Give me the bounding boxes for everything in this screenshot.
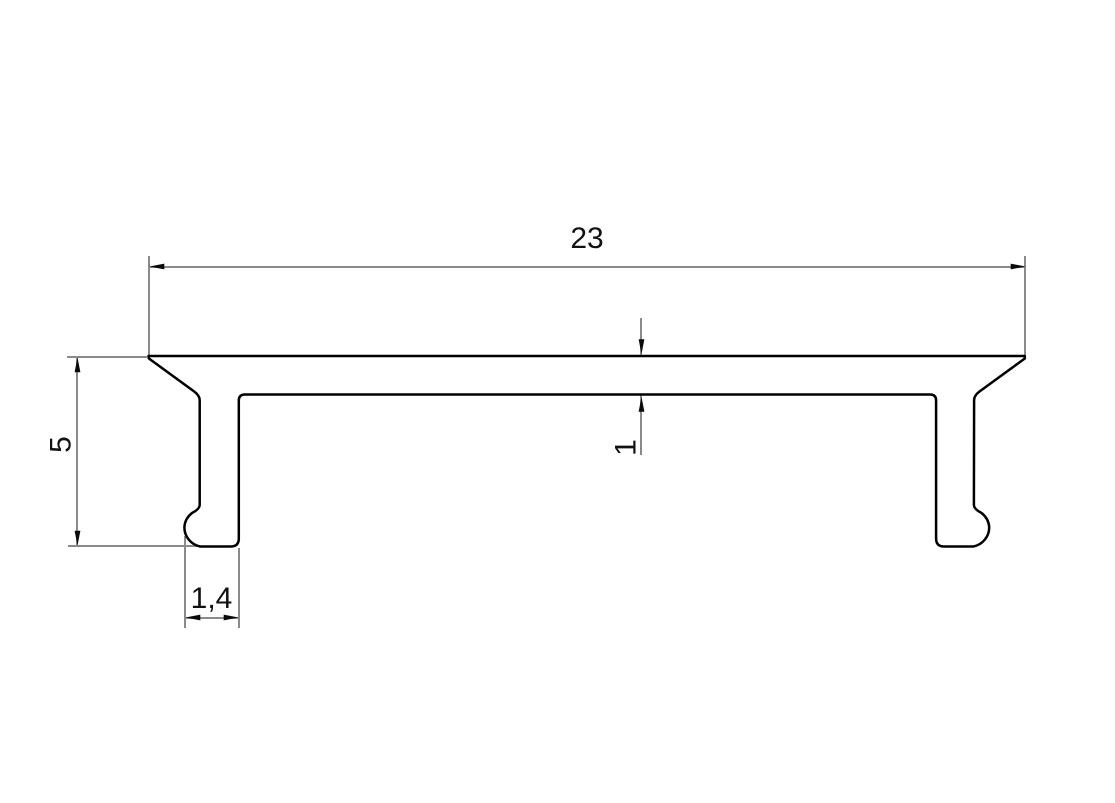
svg-text:1,4: 1,4 bbox=[191, 582, 233, 615]
svg-text:23: 23 bbox=[570, 222, 603, 255]
svg-text:1: 1 bbox=[610, 439, 643, 456]
svg-text:5: 5 bbox=[45, 436, 78, 453]
